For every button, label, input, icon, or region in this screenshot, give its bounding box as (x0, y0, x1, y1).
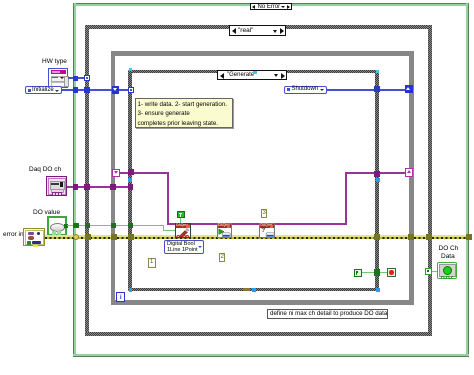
boolean constant True (177, 211, 185, 218)
shift register left (state enum) (112, 86, 120, 94)
tunnel error on "real" border right (426, 234, 432, 240)
iteration terminal i (116, 292, 126, 302)
loop conditional terminal (stop) (387, 268, 396, 277)
selector label "No Error" (250, 3, 292, 11)
tunnel error on green border left (73, 234, 79, 240)
cyan dot Generate bottom-middle (252, 288, 256, 292)
boolean wire DO value (64, 224, 68, 228)
selector terminal "real" case (84, 75, 90, 82)
free label 1 (148, 258, 156, 268)
tunnel DO ch on green border (73, 184, 79, 190)
tunnel DO ch on "real" border (84, 184, 90, 190)
free label 3 (261, 209, 268, 218)
task wire to right tunnel (347, 172, 406, 174)
task wire Write to Start (191, 223, 218, 225)
DAQmx Write VI (175, 223, 192, 238)
wire Initialize enum (62, 89, 112, 90)
error wire (45, 235, 468, 237)
cyan dot Generate top-left (129, 68, 133, 72)
tunnel error on Generate border left (128, 234, 134, 240)
comment label (yellow) (135, 98, 233, 128)
cyan dot Generate top-right (376, 70, 379, 73)
selector label "Generate" (217, 70, 287, 80)
task wire riser up (345, 172, 347, 226)
label HW type (42, 58, 67, 65)
tunnel task on Generate left border (128, 169, 134, 175)
tunnel DO value on Generate border (128, 223, 134, 229)
shift register left (task, purple) (112, 169, 120, 177)
wire Shutdown to shift register (327, 89, 405, 90)
blue tunnel right (unused in this case) (376, 178, 380, 182)
control Daq DO ch (DAQmx name control icon) (46, 176, 67, 196)
tunnel Initialize on green border (73, 87, 79, 93)
olive tunnel on Generate bottom border (243, 288, 250, 291)
control HW type (enum control icon) (48, 68, 68, 88)
label DO Ch Data (439, 245, 459, 260)
control error in (error cluster) (23, 228, 45, 246)
task wire to DAQmx Write (167, 223, 176, 225)
label error in (3, 231, 24, 238)
tunnel DO ch on Generate border (128, 184, 134, 190)
tunnel stop on Generate right border (374, 269, 381, 276)
while loop (thick gray border) (0, 0, 1, 1)
wire shift register to Generate selector (118, 89, 129, 90)
cyan dot Generate bottom-right (376, 288, 380, 292)
tunnel error on "real" border left (85, 234, 91, 240)
free label define ni max (267, 309, 388, 320)
task wire from left SR into Generate case (119, 172, 169, 174)
label DO value (33, 209, 60, 216)
tunnel DO ch on loop border (110, 184, 116, 190)
DAQmx Wait Until Done VI (259, 223, 275, 238)
label Daq DO ch (29, 166, 61, 173)
cyan dot Generate bottom-left (129, 288, 133, 292)
tunnel error on loop border left (111, 234, 117, 240)
DAQmx Start Task VI (217, 223, 232, 238)
selector label "real" (229, 25, 286, 36)
tunnel error on loop border right (408, 234, 414, 240)
tunnel DO value on green border (73, 223, 79, 229)
boolean wire to stop terminal (362, 272, 387, 273)
case structure "real" (gray border) (0, 0, 1, 1)
free label 2 (219, 253, 226, 262)
tunnel task on Generate right border (374, 171, 380, 177)
tunnel error on green border right (466, 234, 472, 240)
wire to DO Ch Data (432, 271, 437, 272)
case structure "Generate" (inner gray border) (0, 0, 1, 1)
tunnel DO value on loop border (111, 223, 117, 229)
polymorphic selector Digital Bool 1Line 1Point (164, 240, 204, 254)
control DO value (boolean) (47, 216, 67, 236)
shift register right (task, purple) (405, 168, 414, 177)
wire Daq DO ch (task/channel purple) (67, 186, 129, 188)
task wire vertical drop (167, 172, 169, 225)
selector terminal "Generate" case (128, 87, 134, 94)
wire True to Write (180, 218, 181, 224)
enum constant Initialize (25, 86, 62, 94)
wire HW type to case selector (68, 77, 85, 78)
task wire Start to Wait (231, 223, 260, 225)
tunnel DO value on "real" border (85, 223, 91, 229)
boolean constant False (354, 269, 362, 277)
tunnel Initialize on "real" border (84, 87, 90, 93)
tunnel Shutdown on Generate border (374, 86, 380, 92)
indicator DO Ch Data (437, 262, 457, 280)
enum constant Shutdown (284, 86, 327, 94)
blue tunnel left (unused in this case) (128, 178, 132, 182)
shift register right (state enum) (405, 85, 413, 93)
tunnel HW type on green border (73, 76, 78, 81)
tunnel error on Generate border right (374, 234, 380, 240)
tunnel DO Ch Data on "real" border (425, 268, 432, 275)
task wire Wait to riser (275, 223, 347, 225)
